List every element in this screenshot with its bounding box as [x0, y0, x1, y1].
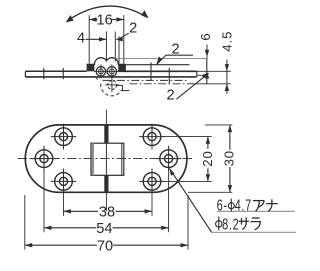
leaf bottom edge: [25, 76, 196, 78]
right plate right end: [196, 71, 198, 77]
svg-text:8.2: 8.2: [222, 216, 239, 233]
svg-text:38: 38: [99, 205, 115, 221]
knuckle left block: [87, 64, 95, 72]
dimension 70: [25, 239, 188, 255]
extension at plate bottom level: [197, 70, 231, 72]
hole right centre: [156, 146, 182, 172]
katakana RA: [251, 218, 261, 230]
hole tick right leaf 1: [150, 62, 152, 80]
left leaf top edge: [25, 70, 86, 72]
svg-text:2: 2: [166, 88, 174, 104]
hole right bottom: [139, 169, 165, 195]
katakana A: [253, 201, 264, 212]
dimension 4: [77, 31, 123, 62]
svg-text:4.5: 4.5: [220, 31, 235, 52]
svg-text:20: 20: [200, 150, 215, 166]
pin centreline above: [105, 110, 107, 125]
right plate bottom edge: [118, 70, 197, 72]
rotation arc arrow: [66, 6, 149, 22]
dimension 38: [64, 205, 153, 221]
obround body: [25, 125, 187, 192]
extension to 4.5 dim: [187, 83, 231, 85]
svg-text:54: 54: [96, 221, 112, 237]
knuckle barrel arcs: [94, 58, 118, 66]
pin bar bottom: [104, 175, 108, 192]
dimension 6 (rotated): [198, 33, 213, 78]
hole right top: [139, 124, 165, 150]
label 2 (right plate): [156, 41, 193, 65]
knuckle rectangle: [91, 143, 124, 175]
pin circle right: [105, 64, 119, 92]
step line at plate right end: [197, 74, 202, 76]
pin centreline through knuckle: [105, 143, 107, 175]
katakana SA: [239, 217, 249, 229]
svg-text:70: 70: [97, 239, 113, 255]
hole tick left leaf 1: [43, 68, 45, 79]
svg-text:4: 4: [77, 31, 85, 47]
hole left centre: [31, 146, 57, 172]
dimension 16: [89, 13, 124, 64]
phantom pin circle (folded): [95, 77, 121, 96]
pin bar top: [104, 125, 108, 143]
folded leaf bracket outline: [117, 85, 130, 90]
extension lines below plan: [63, 194, 65, 216]
dimension 30 (rotated): [222, 125, 237, 192]
dimension 20 (rotated): [200, 137, 215, 182]
folded leaf top dashed line: [103, 79, 188, 81]
pin circle left: [94, 64, 108, 78]
svg-text:16: 16: [96, 13, 112, 29]
pin centreline below: [105, 192, 107, 211]
label 2 (top): [119, 20, 137, 63]
svg-text:2: 2: [129, 20, 137, 36]
right plate top edge: [120, 64, 189, 66]
dimension 4.5 (rotated): [220, 31, 235, 94]
katakana NA: [266, 199, 278, 211]
svg-text:6-: 6-: [217, 197, 228, 214]
horizontal centreline: [18, 158, 195, 160]
hole left top: [51, 124, 77, 150]
right plate end vertical / 6 dim line: [206, 58, 208, 83]
extension lines right of plan: [162, 136, 212, 138]
hole tick left leaf 2: [62, 68, 64, 79]
svg-text:6: 6: [198, 33, 213, 40]
svg-text:30: 30: [222, 150, 237, 166]
countersink note line 1: 6-phi4.7 hole: [217, 197, 278, 214]
hole tick right leaf 2: [168, 68, 170, 84]
knuckle top extension line: [112, 57, 207, 59]
countersink note leader: [169, 168, 296, 232]
folded leaf bottom dashed line: [129, 83, 187, 85]
svg-text:4.7: 4.7: [235, 197, 252, 214]
hole left bottom: [51, 169, 77, 195]
left leaf end: [24, 71, 26, 77]
label 2 (folded plate): [166, 73, 208, 104]
knuckle right block: [118, 64, 126, 72]
dimension 54: [44, 221, 169, 237]
countersink note line 2: phi8.2 countersink: [216, 216, 261, 233]
